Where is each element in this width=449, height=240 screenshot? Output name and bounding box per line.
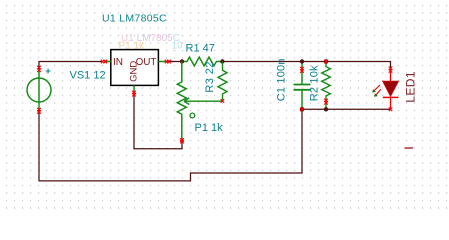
stray mark near LED [405,147,413,148]
plus sign of VS1 [46,69,51,74]
pin-end marker C1 bottom [300,108,304,112]
pin-end marker LED top [389,67,393,73]
pin OUT stub [158,61,166,63]
wire OUT pin to node A [168,61,183,63]
resistor R3 [218,62,227,102]
pin-end marker R2 bottom [324,99,328,105]
node D junction top of R2 [324,59,328,63]
wire bottom return rail [39,109,302,181]
wire GND pin to P1 bottom [134,94,182,149]
IC U1 LM7805C regulator body [111,50,159,86]
wire bottom rail C1 to LED1 [302,108,391,110]
resistor R1 [183,57,222,66]
pin-end marker LED bottom [389,108,393,112]
pin-end marker C1 top [300,67,304,73]
pin GND stub [133,85,135,93]
pin-end marker R3 bottom / wiper [221,99,225,103]
svg-text:GND: GND [128,61,139,82]
LED LED1 symbol [383,68,399,109]
pin-end marker GND [132,91,136,97]
voltage source VS1 [27,69,51,111]
node B junction [220,59,224,63]
node E junction bottom of C1 [300,107,304,111]
pin IN stub [104,61,111,63]
pin-end marker OUT [165,60,171,64]
svg-text:C1 100n: C1 100n [275,58,287,101]
resistor R2 [322,62,331,110]
pin-end marker R2 top [324,60,328,64]
node A junction [180,59,184,63]
pin-end marker P1 bottom [180,138,184,143]
potentiometer P1 [177,62,222,141]
pin-end marker VS1 top [37,66,41,72]
wire node B to LED1 top [222,62,390,69]
svg-text:IN: IN [113,57,123,68]
pin-end marker VS1 bottom [37,108,41,114]
svg-text:R2 10k: R2 10k [308,65,320,101]
svg-text:U1 LM7805C: U1 LM7805C [102,13,167,25]
node F junction bottom of R2 [324,107,328,111]
capacitor C1 [294,62,311,110]
svg-text:VS1 12: VS1 12 [70,70,106,82]
wire VS1 plus to IN pin [39,62,102,69]
pin-end marker IN [101,60,107,64]
svg-text:P1 1k: P1 1k [195,122,224,134]
svg-text:10: 10 [172,41,184,52]
svg-text:R3 22: R3 22 [204,61,216,92]
LED light arrows [372,85,381,97]
node C junction top of C1 [300,59,304,63]
svg-text:R1 47: R1 47 [186,43,215,55]
svg-text:LED1: LED1 [404,71,418,103]
